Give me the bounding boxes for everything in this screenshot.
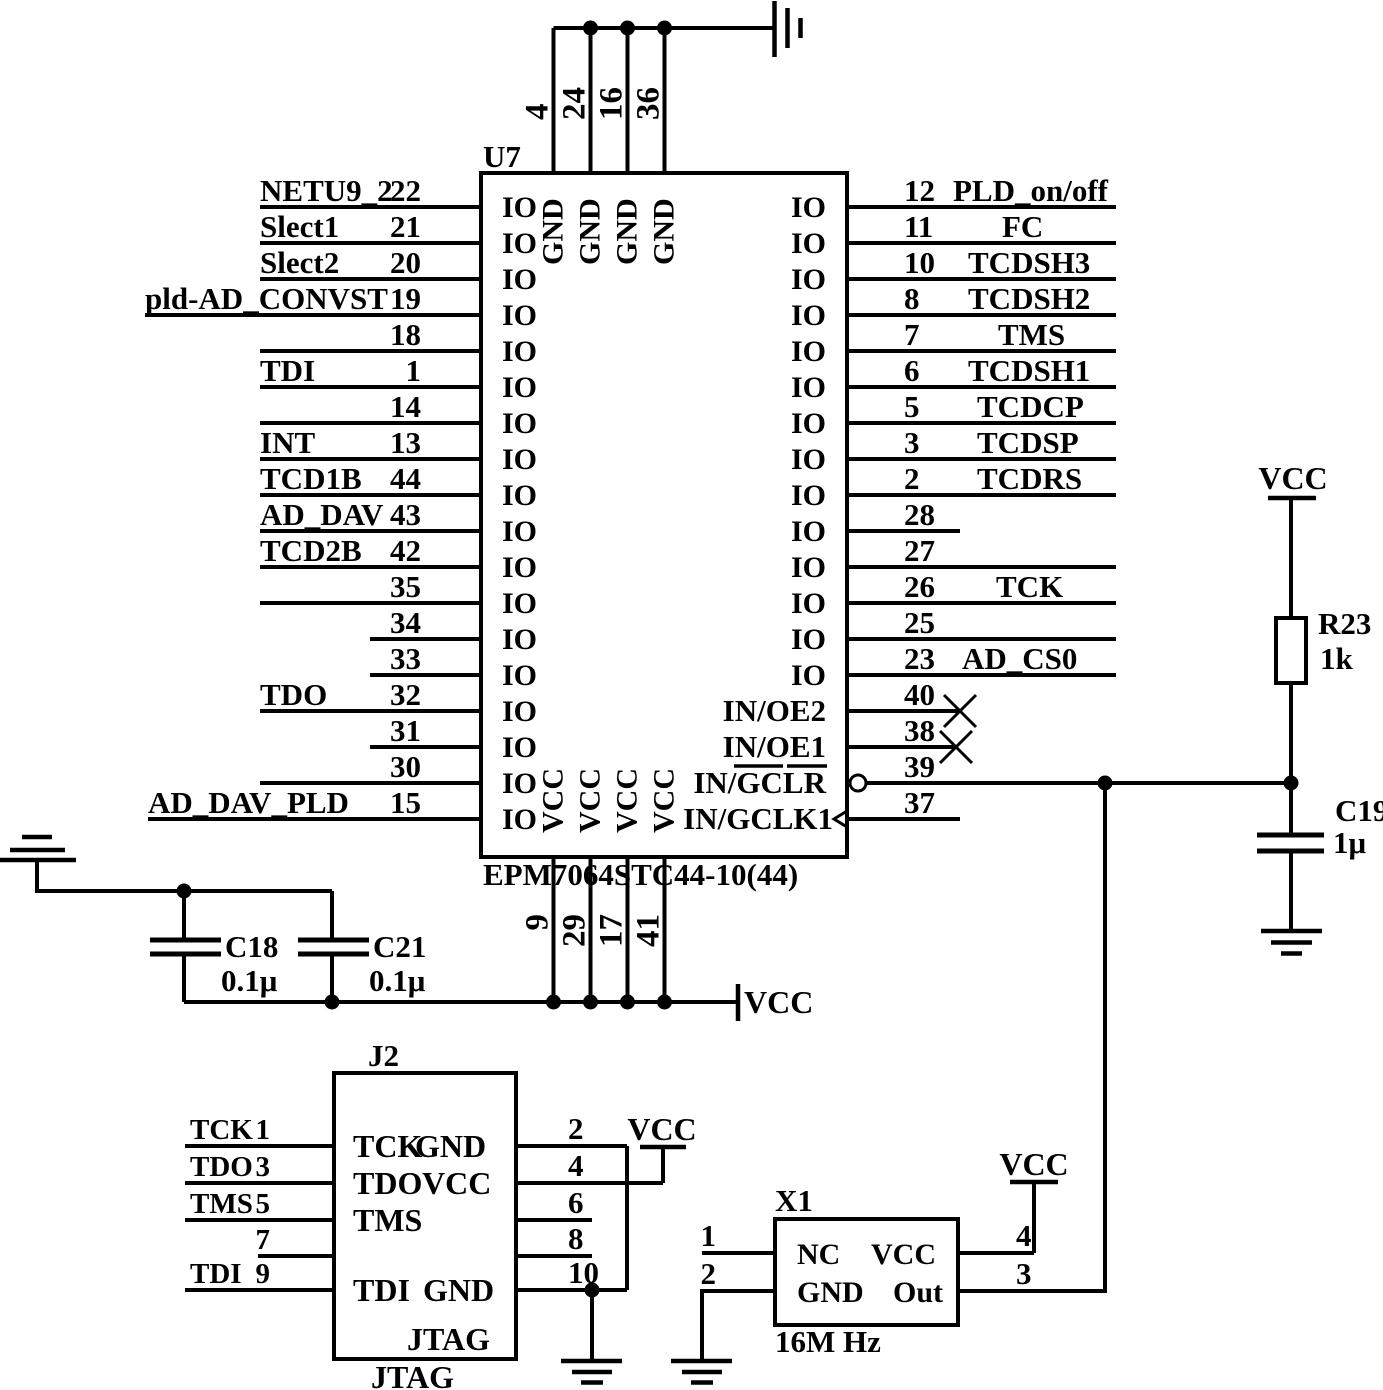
svg-text:IO: IO xyxy=(502,659,537,692)
U7 pin 11 net FC wire xyxy=(791,209,1116,260)
svg-text:IO: IO xyxy=(502,227,537,260)
svg-text:NETU9_2: NETU9_2 xyxy=(260,173,393,208)
svg-text:TMS: TMS xyxy=(190,1188,253,1220)
X1 pin 1 wire xyxy=(701,1218,776,1253)
svg-text:TDO: TDO xyxy=(353,1165,422,1201)
svg-text:29: 29 xyxy=(557,914,593,947)
U7 pin 30 wire xyxy=(260,749,537,800)
U7 pin 12 net PLD_on/off wire xyxy=(791,173,1116,224)
svg-text:20: 20 xyxy=(390,245,421,280)
svg-text:28: 28 xyxy=(904,497,935,532)
svg-text:GND: GND xyxy=(611,198,644,265)
wire VCC bus bottom xyxy=(184,1000,738,1004)
U7 pin 14 wire xyxy=(260,389,537,440)
U7 pin 27 wire xyxy=(791,533,1116,584)
svg-text:IO: IO xyxy=(502,299,537,332)
U7 pin 37 wire xyxy=(834,785,960,827)
svg-text:VCC: VCC xyxy=(422,1165,491,1201)
U7 pin 44 net TCD1B wire xyxy=(260,461,537,512)
svg-text:Slect1: Slect1 xyxy=(260,209,339,244)
svg-text:R23: R23 xyxy=(1318,606,1371,641)
svg-text:C19: C19 xyxy=(1335,793,1383,828)
VCC terminal (bottom) xyxy=(738,984,813,1021)
svg-text:VCC: VCC xyxy=(574,768,607,833)
svg-text:TDI: TDI xyxy=(353,1272,410,1308)
svg-text:AD_CS0: AD_CS0 xyxy=(962,641,1077,676)
svg-text:6: 6 xyxy=(568,1185,584,1220)
svg-text:IO: IO xyxy=(791,371,826,404)
U7 GND pin 24 wire xyxy=(557,28,607,265)
svg-text:17: 17 xyxy=(594,914,630,947)
svg-text:EPM7064STC44-10(44): EPM7064STC44-10(44) xyxy=(483,857,798,892)
U7 pin 33 wire xyxy=(370,641,537,692)
junction xyxy=(620,21,635,36)
svg-text:TCD2B: TCD2B xyxy=(260,533,362,568)
U7 GND pin 4 wire xyxy=(520,28,570,265)
svg-text:GND: GND xyxy=(797,1276,864,1309)
svg-text:IO: IO xyxy=(502,191,537,224)
svg-text:IO: IO xyxy=(502,407,537,440)
U7 pin 43 net AD_DAV wire xyxy=(260,497,537,548)
svg-text:IO: IO xyxy=(502,335,537,368)
svg-text:TCK: TCK xyxy=(353,1128,422,1164)
U7 pin 23 net AD_CS0 wire xyxy=(791,641,1116,692)
U7 pin 18 wire xyxy=(260,317,537,368)
svg-text:INT: INT xyxy=(260,425,315,460)
J2 pin 7 wire xyxy=(256,1224,335,1256)
svg-text:4: 4 xyxy=(568,1148,584,1183)
svg-text:GND: GND xyxy=(423,1272,494,1308)
svg-text:C21: C21 xyxy=(373,929,426,964)
J2 pin 8 wire xyxy=(516,1221,592,1256)
svg-text:2: 2 xyxy=(701,1256,717,1291)
svg-text:18: 18 xyxy=(390,317,421,352)
svg-text:IN/GCLR: IN/GCLR xyxy=(693,765,826,800)
J2 pin 4 wire xyxy=(516,1148,663,1183)
svg-text:IO: IO xyxy=(791,407,826,440)
junction xyxy=(177,884,192,899)
U7 pin 25 wire xyxy=(791,605,1116,656)
svg-text:5: 5 xyxy=(904,389,920,424)
svg-text:PLD_on/off: PLD_on/off xyxy=(953,173,1109,208)
U7 pin 10 net TCDSH3 wire xyxy=(791,245,1116,296)
svg-text:TDI: TDI xyxy=(260,353,315,388)
U7 pin 42 net TCD2B wire xyxy=(260,533,537,584)
U7 pin 32 net TDO wire xyxy=(260,677,537,728)
svg-text:IO: IO xyxy=(502,263,537,296)
svg-text:IO: IO xyxy=(791,191,826,224)
U7 GND pin 36 wire xyxy=(631,28,681,265)
svg-text:GND: GND xyxy=(537,198,570,265)
svg-text:TCK: TCK xyxy=(190,1114,253,1146)
ground (X1) xyxy=(671,1361,732,1383)
svg-text:GND: GND xyxy=(648,198,681,265)
U7 pin label IN/OE1 xyxy=(723,729,826,766)
U7 pin 8 net TCDSH2 wire xyxy=(791,281,1116,332)
svg-text:0.1μ: 0.1μ xyxy=(369,963,426,998)
svg-text:VCC: VCC xyxy=(611,768,644,833)
svg-text:TDO: TDO xyxy=(260,677,327,712)
U7 pin 39 wire xyxy=(850,749,1291,791)
VCC symbol (X1) xyxy=(999,1146,1068,1253)
svg-text:24: 24 xyxy=(557,87,593,120)
svg-text:16M Hz: 16M Hz xyxy=(775,1324,881,1359)
U7 pin 40 wire xyxy=(847,677,976,727)
svg-text:TCDCP: TCDCP xyxy=(977,389,1084,424)
svg-text:GND: GND xyxy=(574,198,607,265)
svg-text:1: 1 xyxy=(256,1114,271,1146)
svg-text:IO: IO xyxy=(791,551,826,584)
svg-text:IO: IO xyxy=(502,479,537,512)
svg-text:34: 34 xyxy=(390,605,421,640)
junction xyxy=(325,995,340,1010)
svg-text:30: 30 xyxy=(390,749,421,784)
J2 pin 1 net TCK wire xyxy=(185,1114,422,1164)
svg-text:3: 3 xyxy=(904,425,920,460)
J2 pin 3 net TDO wire xyxy=(185,1151,422,1201)
U7 pin 34 wire xyxy=(370,605,537,656)
svg-text:IO: IO xyxy=(502,803,537,836)
svg-text:36: 36 xyxy=(631,87,667,120)
svg-text:5: 5 xyxy=(256,1188,271,1220)
svg-text:TCDSH1: TCDSH1 xyxy=(968,353,1090,388)
svg-text:42: 42 xyxy=(390,533,421,568)
junction xyxy=(583,21,598,36)
J2 pin 6 wire xyxy=(516,1185,592,1220)
svg-text:IO: IO xyxy=(791,263,826,296)
svg-text:VCC: VCC xyxy=(744,984,813,1020)
ground (below C19) xyxy=(1261,931,1322,954)
svg-text:25: 25 xyxy=(904,605,935,640)
U7 pin 1 net TDI wire xyxy=(260,353,537,404)
connector J2 JTAG body xyxy=(334,1038,516,1390)
svg-text:VCC: VCC xyxy=(871,1238,936,1271)
wire J2 to ground xyxy=(590,1290,594,1361)
svg-text:23: 23 xyxy=(904,641,935,676)
ground (left) xyxy=(0,837,76,860)
svg-text:U7: U7 xyxy=(483,139,521,174)
svg-text:10: 10 xyxy=(904,245,935,280)
svg-text:TMS: TMS xyxy=(353,1202,422,1238)
svg-text:0.1μ: 0.1μ xyxy=(221,963,278,998)
capacitor C21 0.1u xyxy=(298,891,426,1002)
svg-text:1: 1 xyxy=(701,1218,717,1253)
svg-text:IO: IO xyxy=(502,731,537,764)
svg-text:IO: IO xyxy=(502,371,537,404)
svg-text:VCC: VCC xyxy=(999,1146,1068,1182)
svg-text:IO: IO xyxy=(502,443,537,476)
svg-text:AD_DAV_PLD: AD_DAV_PLD xyxy=(148,785,349,820)
svg-text:7: 7 xyxy=(256,1224,271,1256)
svg-text:JTAG: JTAG xyxy=(407,1321,490,1357)
wire X1 out to GCLR xyxy=(958,783,1105,1291)
svg-text:13: 13 xyxy=(390,425,421,460)
J2 pin 5 net TMS wire xyxy=(185,1188,422,1238)
svg-text:IO: IO xyxy=(791,659,826,692)
svg-text:IN/OE1: IN/OE1 xyxy=(723,729,826,764)
svg-text:TCDSP: TCDSP xyxy=(977,425,1079,460)
svg-text:2: 2 xyxy=(904,461,920,496)
svg-text:TCD1B: TCD1B xyxy=(260,461,362,496)
svg-text:TCK: TCK xyxy=(996,569,1063,604)
wire ground to caps xyxy=(37,860,332,891)
svg-text:IO: IO xyxy=(791,227,826,260)
U7 VCC pin 41 wire xyxy=(631,768,681,1002)
U7 pin 2 net TCDRS wire xyxy=(791,461,1116,512)
junction node R23/C19/GCLR xyxy=(1284,776,1299,791)
J2 inside labels GND/VCC/GND xyxy=(415,1128,494,1308)
svg-text:7: 7 xyxy=(904,317,920,352)
svg-text:4: 4 xyxy=(520,104,556,121)
svg-text:1μ: 1μ xyxy=(1333,825,1367,860)
svg-text:IO: IO xyxy=(791,443,826,476)
U7 pin label IN/GCLK1 xyxy=(683,801,833,836)
svg-text:IO: IO xyxy=(502,695,537,728)
svg-text:38: 38 xyxy=(904,713,935,748)
svg-text:31: 31 xyxy=(390,713,421,748)
U7 pin 21 net Slect1 wire xyxy=(260,209,537,260)
svg-text:21: 21 xyxy=(390,209,421,244)
J2 pin 2 wire xyxy=(516,1111,627,1146)
svg-text:IO: IO xyxy=(791,515,826,548)
svg-text:IO: IO xyxy=(502,767,537,800)
svg-text:VCC: VCC xyxy=(627,1111,696,1147)
X1 pin 4 wire xyxy=(958,1218,1034,1253)
U7 pin 26 net TCK wire xyxy=(791,569,1116,620)
U7 pin 31 wire xyxy=(370,713,537,764)
junction xyxy=(583,995,598,1010)
svg-text:IO: IO xyxy=(791,623,826,656)
svg-text:IO: IO xyxy=(502,623,537,656)
svg-text:IO: IO xyxy=(502,551,537,584)
U7 pin 28 wire xyxy=(791,497,960,548)
U7 pin 3 net TCDSP wire xyxy=(791,425,1116,476)
svg-text:32: 32 xyxy=(390,677,421,712)
svg-text:3: 3 xyxy=(1016,1256,1032,1291)
svg-text:2: 2 xyxy=(568,1111,584,1146)
U7 pin 15 net AD_DAV_PLD wire xyxy=(148,785,537,836)
svg-text:8: 8 xyxy=(904,281,920,316)
U7 pin 19 net pld-AD_CONVST wire xyxy=(145,281,537,332)
junction xyxy=(546,995,561,1010)
svg-text:NC: NC xyxy=(797,1238,840,1271)
svg-text:TCDSH2: TCDSH2 xyxy=(968,281,1090,316)
svg-text:1: 1 xyxy=(406,353,422,388)
capacitor C18 0.1u xyxy=(150,891,278,1002)
U7 pin 5 net TCDCP wire xyxy=(791,389,1116,440)
svg-text:9: 9 xyxy=(256,1258,271,1290)
U7 pin 38 wire xyxy=(847,713,972,763)
U7 GND pin 16 wire xyxy=(594,28,644,265)
capacitor C19 1u xyxy=(1257,783,1383,931)
svg-text:J2: J2 xyxy=(368,1038,399,1073)
U7 pin 22 net NETU9_2 wire xyxy=(260,173,537,224)
svg-text:VCC: VCC xyxy=(537,768,570,833)
U7 VCC pin 17 wire xyxy=(594,768,644,1002)
ground (top right) xyxy=(775,1,801,57)
VCC symbol (right top) xyxy=(1258,460,1327,618)
X1 pin 2 wire xyxy=(701,1256,776,1361)
junction node GCLR/X1 out xyxy=(1098,776,1113,791)
svg-text:C18: C18 xyxy=(225,929,278,964)
svg-text:35: 35 xyxy=(390,569,421,604)
svg-text:IO: IO xyxy=(791,479,826,512)
svg-text:FC: FC xyxy=(1002,209,1043,244)
svg-text:VCC: VCC xyxy=(1258,460,1327,496)
svg-text:IO: IO xyxy=(791,299,826,332)
svg-text:26: 26 xyxy=(904,569,935,604)
junction J2 GND xyxy=(585,1283,600,1298)
svg-text:TDO: TDO xyxy=(190,1151,253,1183)
svg-text:44: 44 xyxy=(390,461,421,496)
svg-text:11: 11 xyxy=(904,209,933,244)
junction xyxy=(620,995,635,1010)
svg-text:19: 19 xyxy=(390,281,421,316)
svg-text:27: 27 xyxy=(904,533,935,568)
U7 VCC pin 29 wire xyxy=(557,768,607,1002)
svg-text:X1: X1 xyxy=(775,1183,813,1218)
wire GND bus top xyxy=(554,26,775,30)
junction xyxy=(657,995,672,1010)
svg-text:IN/GCLK1: IN/GCLK1 xyxy=(683,801,833,836)
resistor R23 1k xyxy=(1276,606,1371,783)
ground (J2) xyxy=(561,1361,622,1383)
svg-text:AD_DAV: AD_DAV xyxy=(260,497,384,532)
svg-text:Slect2: Slect2 xyxy=(260,245,339,280)
U7 pin 6 net TCDSH1 wire xyxy=(791,353,1116,404)
svg-text:37: 37 xyxy=(904,785,935,820)
svg-text:pld-AD_CONVST: pld-AD_CONVST xyxy=(145,281,388,316)
svg-text:16: 16 xyxy=(594,87,630,120)
svg-text:8: 8 xyxy=(568,1221,584,1256)
wire J2 pin2 to pin10 xyxy=(625,1146,629,1290)
svg-text:41: 41 xyxy=(631,914,667,947)
svg-text:14: 14 xyxy=(390,389,421,424)
svg-text:22: 22 xyxy=(390,173,421,208)
svg-text:9: 9 xyxy=(520,914,556,931)
U7 pin 20 net Slect2 wire xyxy=(260,245,537,296)
IC U7 EPM7064STC44-10(44) body xyxy=(481,139,847,892)
VCC symbol (J2) xyxy=(627,1111,696,1183)
oscillator X1 16MHz body xyxy=(775,1183,958,1359)
svg-text:3: 3 xyxy=(256,1151,271,1183)
svg-text:IO: IO xyxy=(791,335,826,368)
svg-text:Out: Out xyxy=(893,1276,943,1309)
svg-text:1k: 1k xyxy=(1320,641,1354,676)
svg-text:15: 15 xyxy=(390,785,421,820)
junction xyxy=(657,21,672,36)
svg-text:IO: IO xyxy=(502,587,537,620)
svg-text:GND: GND xyxy=(415,1128,486,1164)
svg-text:JTAG: JTAG xyxy=(371,1359,454,1390)
U7 pin 35 wire xyxy=(260,569,537,620)
svg-text:IO: IO xyxy=(791,587,826,620)
U7 VCC pin 9 wire xyxy=(520,768,570,1002)
svg-text:IO: IO xyxy=(502,515,537,548)
svg-text:4: 4 xyxy=(1016,1218,1032,1253)
svg-text:43: 43 xyxy=(390,497,421,532)
U7 pin 13 net INT wire xyxy=(260,425,537,476)
J2 pin 10 wire xyxy=(516,1255,627,1290)
svg-text:VCC: VCC xyxy=(648,768,681,833)
svg-text:33: 33 xyxy=(390,641,421,676)
svg-text:TCDRS: TCDRS xyxy=(977,461,1082,496)
svg-text:TMS: TMS xyxy=(998,317,1065,352)
svg-text:40: 40 xyxy=(904,677,935,712)
svg-text:TDI: TDI xyxy=(190,1258,242,1290)
svg-text:39: 39 xyxy=(904,749,935,784)
svg-text:IN/OE2: IN/OE2 xyxy=(723,693,826,728)
U7 pin 7 net TMS wire xyxy=(791,317,1116,368)
X1 pin 3 wire xyxy=(1016,1256,1032,1291)
U7 pin label IN/OE2 xyxy=(723,693,826,728)
svg-text:6: 6 xyxy=(904,353,920,388)
svg-text:12: 12 xyxy=(904,173,935,208)
U7 pin label IN/GCLR with overline xyxy=(693,765,827,800)
J2 pin 9 net TDI wire xyxy=(185,1258,410,1308)
svg-text:TCDSH3: TCDSH3 xyxy=(968,245,1090,280)
